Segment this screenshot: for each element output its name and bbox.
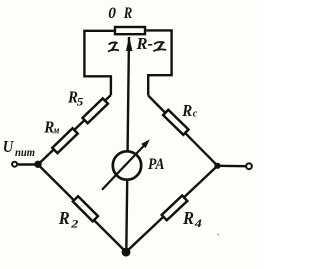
galvanometer PA body: [113, 151, 141, 179]
svg-text:PA: PA: [148, 156, 165, 173]
wire: lower-right bridge arm (node B to bottom node): [126, 166, 218, 252]
resistor Rc: [163, 110, 188, 135]
label x of R-x: [154, 42, 165, 51]
wire: upper-right bridge arm (bracket to node B): [148, 96, 217, 166]
wire: right bracket from potentiometer right end: [146, 30, 171, 95]
svg-text:U: U: [3, 137, 14, 156]
speck (scan artifact): [217, 234, 219, 236]
svg-text:R: R: [58, 208, 70, 228]
wire: galvanometer branch (wiper to bottom node): [126, 37, 129, 252]
svg-text:R: R: [182, 208, 194, 228]
resistor R4: [162, 196, 188, 221]
svg-text:4: 4: [194, 216, 202, 230]
galvanometer PA needle arrow: [102, 144, 146, 190]
wire: lower-left bridge arm (node A to bottom node): [38, 165, 126, 253]
potentiometer wiper arrowhead: [126, 37, 132, 51]
resistor R2: [73, 196, 98, 221]
node A junction dot: [34, 161, 41, 168]
svg-text:0: 0: [108, 5, 116, 22]
wire: upper-left bridge arm (node A to bracket): [38, 95, 111, 165]
svg-text:c: c: [193, 108, 198, 120]
label x (left part of potentiometer): [109, 42, 119, 51]
resistor R5: [82, 98, 107, 123]
svg-text:R-: R-: [136, 34, 154, 53]
node B junction dot: [214, 163, 220, 169]
right terminal: [246, 163, 252, 169]
potentiometer R body: [115, 27, 145, 34]
wire: left bracket from potentiometer left end: [84, 31, 113, 95]
svg-text:5: 5: [77, 95, 84, 109]
wire: right terminal lead: [218, 165, 246, 168]
svg-text:пит: пит: [15, 147, 35, 159]
svg-text:м: м: [53, 126, 60, 137]
wire: left terminal lead: [18, 163, 38, 165]
svg-text:R: R: [123, 5, 133, 22]
svg-text:R: R: [181, 101, 192, 120]
left terminal (Upit input): [12, 162, 17, 167]
svg-text:2: 2: [70, 217, 78, 231]
bottom node junction dot: [122, 248, 131, 257]
resistor Rm: [52, 128, 77, 153]
